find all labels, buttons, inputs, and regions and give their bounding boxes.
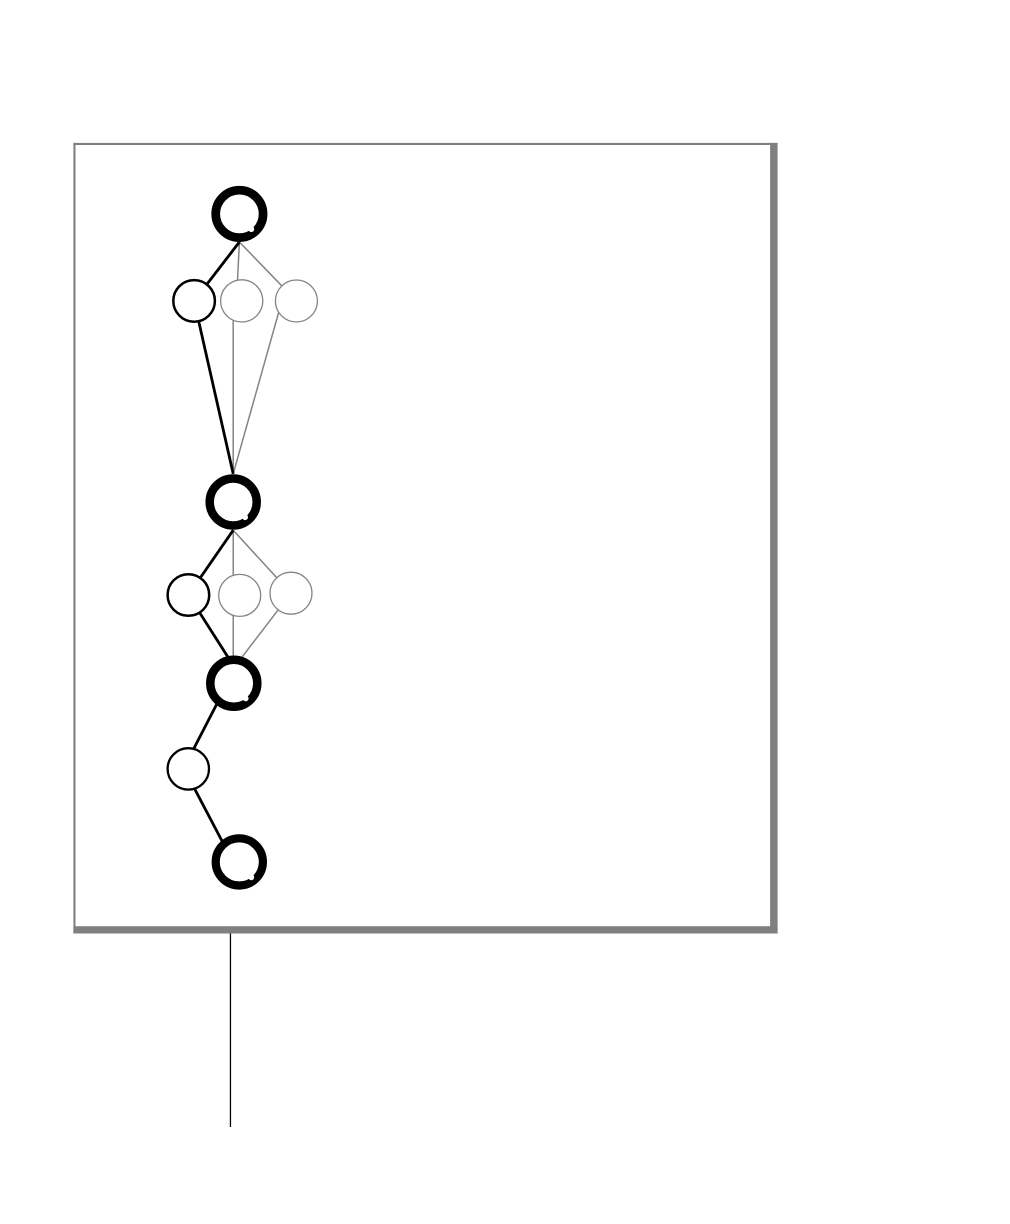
edge root to child A (black) [194, 242, 239, 301]
box frame left border [73, 143, 75, 934]
node G (thin black circle) [168, 748, 209, 789]
node child D (black circle) [168, 574, 210, 616]
edge node G to leaf (black) [186, 773, 230, 857]
edge child C to node P2 (gray) [233, 301, 282, 474]
node P2 (bold ring) [210, 479, 257, 526]
notch on node P2 ring [242, 514, 248, 520]
notch on leaf ring [248, 874, 254, 880]
edge node P2 to child D (black) [188, 530, 233, 595]
edge child D to node P3 (black) [188, 595, 229, 660]
wire: pointer line below box [230, 934, 231, 1128]
edge child A to node P2 (black) [194, 301, 233, 474]
node child B (gray circle) [221, 280, 263, 322]
node root (bold ring) [216, 190, 263, 237]
node child A (black circle) [173, 280, 215, 322]
node leaf (bold ring) [216, 838, 263, 885]
edge node P2 to child F (gray) [233, 530, 291, 593]
node child C (gray circle) [275, 280, 317, 322]
box frame right thick bar [770, 143, 778, 934]
edge child F to node P3 (gray) [242, 593, 291, 657]
edge node P2 to child E and on to node P3 (gray vertical) [232, 530, 234, 656]
box frame top border [73, 143, 777, 145]
node child F (gray circle) [270, 572, 312, 614]
box frame bottom thick bar [73, 926, 777, 933]
notch on root ring [248, 226, 254, 232]
node child E (gray circle) [219, 574, 261, 616]
edge root to child B (gray) [237, 242, 240, 301]
edge root to child C (gray) [239, 242, 296, 301]
notch on node P3 ring [243, 696, 249, 702]
edge child B to node P2 (gray) [232, 301, 234, 474]
node P3 (bold ring) [210, 660, 257, 707]
edge node P3 to node G (black) [190, 695, 221, 755]
